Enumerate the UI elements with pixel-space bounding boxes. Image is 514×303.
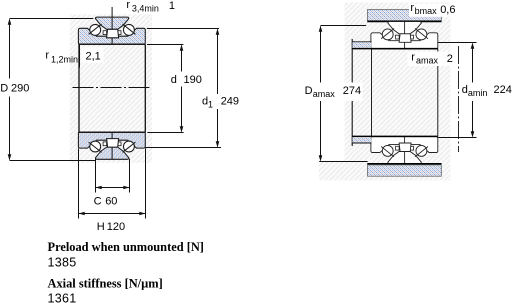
svg-text:60: 60 (105, 196, 117, 208)
svg-text:Preload when unmounted [N]: Preload when unmounted [N] (48, 240, 204, 254)
svg-text:1361: 1361 (48, 292, 77, 303)
svg-text:r: r (45, 50, 49, 62)
svg-text:C: C (94, 196, 102, 208)
shaft abutment bar bottom (367, 163, 441, 165)
svg-text:d: d (171, 74, 177, 86)
svg-text:2,1: 2,1 (86, 50, 101, 62)
svg-text:190: 190 (184, 74, 202, 86)
svg-text:amax: amax (313, 89, 336, 99)
svg-text:1385: 1385 (48, 255, 77, 269)
svg-text:3,4min: 3,4min (132, 4, 159, 14)
svg-text:1: 1 (169, 0, 175, 12)
bearing top section (outline) (371, 22, 438, 49)
svg-text:2: 2 (447, 53, 453, 65)
shaft abutment bar top (368, 10, 442, 21)
dimension damin 224 (438, 42, 477, 44)
dimension d 190 (147, 44, 183, 46)
svg-text:1: 1 (208, 100, 213, 110)
svg-text:249: 249 (221, 95, 239, 107)
faint hatch background right view (345, 3, 451, 161)
bearing top section (78, 17, 145, 44)
svg-text:bmax: bmax (415, 6, 438, 16)
dimension D 290 (10, 18, 94, 20)
dimension d1 249 (147, 28, 219, 30)
label r1,2min 2,1 with leader (79, 45, 81, 68)
housing shoulder bottom (352, 135, 438, 137)
svg-text:224: 224 (494, 84, 512, 96)
axis centerline (73, 87, 150, 89)
faint hatch background left view (70, 14, 152, 163)
label r_bmax 0,6 (409, 4, 453, 17)
bearing bottom section (mirrored) (78, 132, 145, 159)
label r3,4min 1 with leader (111, 7, 113, 17)
dimension H 120 (78, 148, 80, 218)
label r_amax 2 (408, 52, 458, 67)
svg-text:D: D (305, 85, 313, 97)
svg-text:0,6: 0,6 (440, 4, 455, 16)
dimension C 60 (95, 159, 97, 193)
svg-text:1,2min: 1,2min (51, 55, 78, 65)
svg-text:amax: amax (416, 56, 439, 66)
svg-text:120: 120 (107, 221, 125, 233)
dimension Damax 274 (321, 25, 367, 27)
svg-text:Axial stiffness [N/µm]: Axial stiffness [N/µm] (48, 277, 163, 291)
side face lines right view (371, 49, 373, 137)
bearing bottom section (outline, mirrored) (371, 136, 438, 163)
svg-text:amin: amin (468, 88, 488, 98)
svg-text:274: 274 (343, 85, 361, 97)
svg-text:290: 290 (11, 82, 29, 94)
side face lines (78, 44, 80, 132)
svg-text:r: r (126, 0, 130, 11)
svg-text:r: r (411, 51, 415, 63)
housing shoulder top (351, 39, 353, 146)
shaft shoulder circle centerline (458, 46, 460, 152)
svg-text:D: D (0, 82, 8, 94)
svg-text:H: H (97, 221, 105, 233)
